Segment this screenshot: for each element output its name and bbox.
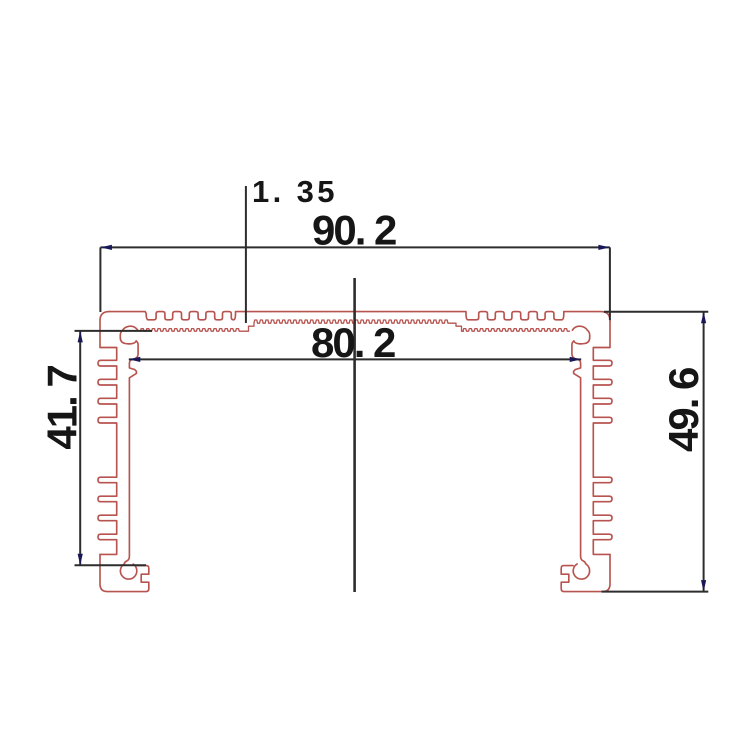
left inner hook and wall [120,326,138,563]
dim 80.2 line [129,358,581,360]
dim 41.7 bottom ext [75,564,147,566]
right foot [561,554,610,591]
dim 41.7 top ext [75,330,153,332]
dim 90.2 right ext [609,247,611,320]
left screw boss circle [120,564,136,579]
ceiling serration left [141,329,247,332]
serration step left [247,323,255,331]
dim 90.2 line [100,246,610,248]
svg-text:80. 2: 80. 2 [311,319,395,366]
svg-text:1. 35: 1. 35 [252,174,338,209]
dim 49.6 bottom ext [602,591,709,593]
svg-text:41. 7: 41. 7 [38,366,85,450]
dim 1.35 leader [245,186,247,323]
profile left wall with fins [98,312,117,555]
arrow 80.2 right [570,357,582,362]
svg-text:90. 2: 90. 2 [312,207,396,254]
profile right wall with fins [593,321,612,555]
arrow 41.7 bottom [78,554,83,566]
ceiling serration right [463,329,570,332]
arrow 80.2 left [129,357,141,362]
svg-text:49. 6: 49. 6 [660,368,707,452]
dim 41.7 line [79,331,81,565]
arrow 90.2 left [100,245,112,250]
right inner hook and wall [572,326,590,563]
dim 49.6 top ext [604,311,708,313]
arrow 49.6 top [701,312,706,324]
dim 90.2 left ext [99,247,101,312]
profile top wall outer surface with grooves [109,312,610,321]
dim 49.6 line [703,312,705,592]
arrow 41.7 top [78,331,83,343]
ceiling serration center [254,320,456,323]
left foot [100,554,149,591]
arrow 49.6 bottom [701,580,706,592]
right screw boss circle [573,564,589,579]
serration step right [456,323,464,331]
centerline [353,278,356,592]
arrow 90.2 right [598,245,610,250]
